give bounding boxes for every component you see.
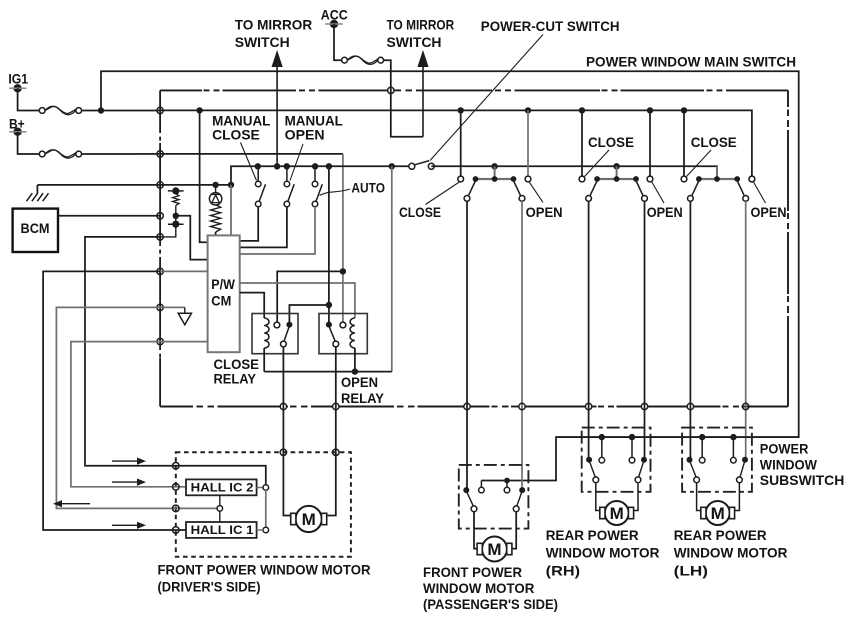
- LED (illumination): [209, 185, 221, 205]
- junction P/W CM feed tap: [196, 107, 202, 113]
- svg-text:POWER-CUT SWITCH: POWER-CUT SWITCH: [481, 18, 620, 34]
- wire rear LH motor open line: [745, 201, 747, 460]
- svg-text:M: M: [711, 504, 725, 523]
- wire passenger motor close line: [466, 201, 468, 490]
- svg-text:AUTO: AUTO: [351, 180, 385, 196]
- wire BCM path to P/W CM: [176, 216, 208, 260]
- terminal B+: [9, 116, 26, 136]
- wire IG1 to fuse: [18, 88, 40, 110]
- svg-text:OPEN: OPEN: [751, 204, 787, 220]
- junction ground bus corner to P/W CM: [228, 182, 234, 188]
- fuse B+: [39, 150, 81, 158]
- pin row2 on dashed box: [173, 484, 180, 491]
- pin rear RH open on bottom border: [641, 403, 647, 409]
- junction manual open contact: [284, 163, 290, 169]
- junction mirror feed: [274, 163, 280, 169]
- junction passenger switch common: [491, 163, 497, 169]
- junction passenger close feed: [458, 107, 464, 113]
- close relay box: [252, 314, 298, 354]
- pointer manual close: [241, 143, 257, 181]
- wire rear LH close contact: [683, 110, 685, 176]
- label POWER WINDOW MAIN SWITCH: [586, 53, 796, 69]
- svg-text:BCM: BCM: [21, 221, 50, 236]
- illumination terminal lower: [168, 216, 184, 228]
- svg-text:SUBSWITCH: SUBSWITCH: [760, 472, 845, 488]
- pointer open passenger: [529, 182, 543, 202]
- junction BCM wire / illumination: [173, 213, 179, 219]
- front power window motor (driver side) dashed box: [176, 452, 351, 556]
- pin hall ic1 on left border: [157, 268, 163, 274]
- pointer open rear RH: [652, 182, 664, 203]
- wire rear RH motor open line: [644, 201, 646, 460]
- junction B+ rail to close relay contact: [340, 268, 346, 274]
- pointer close passenger: [426, 182, 460, 205]
- wire hall ic1 line (row4): [43, 271, 186, 530]
- pointer manual open: [290, 144, 303, 181]
- wire BCM to main switch pin: [58, 215, 160, 217]
- wire top feed rail to subswitches (IG1 around right side): [101, 71, 799, 480]
- switch MANUAL CLOSE: [255, 166, 265, 207]
- label CLOSE (rear RH): [588, 134, 634, 150]
- label POWER-CUT SWITCH: [481, 18, 620, 34]
- ground symbol (battery ground): [27, 185, 49, 201]
- pin B+ on left border: [157, 151, 163, 157]
- rear RH subswitch contacts: [586, 434, 647, 483]
- motor M rear LH: [701, 501, 735, 525]
- fuse ACC: [342, 56, 384, 64]
- junction relay commons: [326, 302, 332, 308]
- label AUTO: [351, 180, 385, 196]
- wire hall right pins: [257, 485, 269, 533]
- junction rear RH switch common: [613, 163, 619, 169]
- svg-text:CLOSE: CLOSE: [212, 126, 260, 142]
- relay coil return rail: [264, 166, 392, 371]
- label OPEN RELAY: [341, 375, 384, 406]
- node hall mid pin: [217, 495, 223, 522]
- wire passenger motor left: [474, 511, 477, 548]
- wire sensor ground pin with chassis triangle: [160, 307, 191, 324]
- wire open relay output to driver motor: [328, 347, 336, 516]
- svg-text:HALL IC 1: HALL IC 1: [191, 523, 254, 537]
- svg-text:OPEN: OPEN: [285, 126, 325, 142]
- svg-text:(PASSENGER'S SIDE): (PASSENGER'S SIDE): [423, 596, 558, 612]
- label OPEN (rear LH): [751, 204, 787, 220]
- pin rear RH close on bottom border: [585, 403, 591, 409]
- svg-text:RELAY: RELAY: [214, 371, 257, 386]
- switch MANUAL OPEN: [284, 166, 294, 207]
- main switch box top border (dash-dot): [160, 89, 788, 91]
- wire rear LH motor left: [697, 482, 701, 510]
- pin rear LH close on bottom border: [687, 403, 693, 409]
- svg-text:WINDOW MOTOR: WINDOW MOTOR: [423, 580, 534, 596]
- wire rear LH open contact (rail end corner): [749, 176, 755, 182]
- label REAR POWER WINDOW MOTOR (LH): [674, 527, 788, 578]
- power-cut switch: [409, 161, 435, 170]
- BCM box: [13, 209, 58, 252]
- wire rear RH motor close line: [588, 201, 590, 460]
- wire close relay common branch: [289, 305, 329, 322]
- rear LH subswitch box (dash-dot): [682, 428, 752, 492]
- front passenger subswitch box (dash-dot): [459, 465, 529, 529]
- junction passenger open feed: [525, 107, 531, 113]
- label MANUAL CLOSE: [212, 113, 271, 143]
- junction IG1 top rail tap: [98, 107, 104, 113]
- pin IG1 on left border: [157, 107, 163, 113]
- close relay coil: [264, 318, 269, 372]
- fuse IG1: [39, 106, 81, 114]
- close relay contact: [274, 322, 292, 347]
- pin driver motor close crossing: [280, 449, 286, 455]
- wire rear LH motor right: [735, 482, 739, 510]
- svg-text:(DRIVER'S SIDE): (DRIVER'S SIDE): [158, 579, 261, 595]
- label POWER WINDOW SUBSWITCH: [760, 441, 845, 488]
- svg-text:(LH): (LH): [674, 562, 708, 578]
- wire rear LH motor close line: [689, 201, 691, 460]
- svg-text:TO MIRROR: TO MIRROR: [387, 17, 455, 33]
- motor M rear RH: [600, 501, 634, 525]
- wire close relay output to driver motor: [283, 347, 293, 516]
- pin open output on bottom border: [333, 403, 339, 409]
- junction rear LH close feed: [681, 107, 687, 113]
- label TO MIRROR SWITCH (left): [235, 17, 313, 51]
- pin row3 on dashed box: [173, 505, 180, 512]
- svg-text:SWITCH: SWITCH: [387, 34, 442, 50]
- label TO MIRROR SWITCH (right): [387, 17, 455, 51]
- svg-text:WINDOW: WINDOW: [760, 456, 818, 472]
- wire B+ branch to close relay contact: [277, 271, 343, 322]
- svg-text:M: M: [487, 540, 501, 559]
- wire main switch pin to P/W CM (hall ic1 line): [160, 270, 208, 272]
- switch rear RH window (in main switch): [579, 166, 653, 201]
- label CLOSE (rear LH): [691, 134, 737, 150]
- rear RH subswitch box (dash-dot): [582, 428, 651, 492]
- arrow to mirror switch (right): [417, 50, 428, 137]
- pin ACC on top border: [388, 87, 394, 93]
- B+ rail to relay contacts: [160, 154, 343, 323]
- svg-text:TO MIRROR: TO MIRROR: [235, 17, 313, 33]
- relay common rail from ground bus: [328, 166, 330, 322]
- svg-text:M: M: [302, 510, 316, 529]
- terminal IG1: [8, 72, 28, 93]
- pin passenger close on bottom border: [464, 403, 470, 409]
- motor M front passenger: [477, 537, 512, 562]
- wire hall feed from pin to motor box (row1): [85, 237, 266, 485]
- svg-text:REAR POWER: REAR POWER: [546, 527, 639, 543]
- arrow row3 (output): [53, 500, 90, 507]
- wire ground to main switch pin: [37, 184, 160, 186]
- resistor illumination: [173, 191, 179, 216]
- svg-text:SWITCH: SWITCH: [235, 34, 290, 50]
- wire rear RH close contact: [581, 110, 583, 176]
- pointer auto: [320, 189, 351, 196]
- open relay coil: [350, 318, 355, 372]
- wire IG1 tap to P/W CM: [200, 110, 208, 242]
- svg-text:HALL IC 2: HALL IC 2: [191, 481, 254, 495]
- pin ground on left border: [157, 182, 163, 188]
- pin BCM signal on left border: [157, 213, 163, 219]
- label REAR POWER WINDOW MOTOR (RH): [546, 527, 660, 578]
- svg-text:CM: CM: [211, 294, 231, 309]
- subswitch feed bus: [556, 436, 799, 438]
- wire lower terminal to hall-feed pin: [160, 224, 176, 237]
- junction relay coil return rail: [389, 163, 395, 169]
- switch front passenger window (in main switch): [458, 166, 531, 201]
- switch AUTO: [312, 166, 322, 207]
- pin rear LH open on bottom border: [743, 403, 749, 409]
- wire auto contact to P/W CM: [240, 207, 315, 254]
- HALL IC 2 box: [186, 479, 257, 495]
- wire rear RH motor left: [596, 482, 600, 510]
- svg-text:FRONT POWER WINDOW MOTOR: FRONT POWER WINDOW MOTOR: [158, 562, 371, 578]
- pin passenger open on bottom border: [519, 403, 525, 409]
- svg-text:REAR POWER: REAR POWER: [674, 527, 767, 543]
- pin hall feed on left border: [157, 234, 163, 240]
- label MANUAL OPEN: [285, 113, 344, 143]
- svg-text:WINDOW MOTOR: WINDOW MOTOR: [674, 545, 788, 561]
- wire manual open contact to P/W CM: [240, 207, 287, 248]
- pin sensor ground on left border: [157, 304, 163, 310]
- motor M driver side: [291, 506, 327, 532]
- junction rear RH close feed: [579, 107, 585, 113]
- wire fuse to main switch pin (IG1 rail): [82, 110, 161, 112]
- svg-text:OPEN: OPEN: [341, 375, 378, 390]
- svg-text:RELAY: RELAY: [341, 391, 384, 406]
- wire P/W CM to close relay coil: [240, 293, 265, 318]
- pointer line POWER-CUT SWITCH: [430, 35, 543, 161]
- wire passenger motor open line: [521, 201, 523, 490]
- pointer close rear RH: [585, 150, 610, 177]
- svg-text:M: M: [610, 504, 624, 523]
- resistor below LED: [211, 205, 221, 236]
- arrow row4: [112, 522, 146, 529]
- main switch box right border (dash-dot): [787, 90, 789, 406]
- pin driver motor open crossing: [333, 449, 339, 455]
- rear LH subswitch contacts: [687, 434, 749, 483]
- wire passenger close contact: [460, 110, 462, 176]
- junction ground bus / LED tap: [212, 182, 218, 188]
- main switch box bottom border (dash-dot): [160, 406, 788, 408]
- wire B+ to fuse: [18, 132, 40, 154]
- pin close output on bottom border: [280, 403, 286, 409]
- wire ACC to fuse: [334, 24, 342, 60]
- svg-text:CLOSE: CLOSE: [214, 357, 260, 372]
- arrow feed row1: [112, 458, 146, 465]
- P/W CM module box: [208, 235, 240, 352]
- junction auto contact: [312, 163, 318, 169]
- wire passenger motor right: [512, 511, 516, 548]
- pin hall ic2 on left border: [157, 338, 163, 344]
- wire fuse to main switch pin (B+ rail): [82, 153, 161, 155]
- svg-text:POWER: POWER: [760, 441, 809, 457]
- junction relay common rail: [326, 163, 332, 169]
- ground bus right of power-cut switch: [431, 166, 717, 179]
- wire main switch pin to P/W CM (hall ic2 line): [160, 341, 208, 343]
- label CLOSE RELAY: [214, 357, 260, 387]
- label OPEN (passenger): [526, 204, 563, 220]
- label OPEN (rear RH): [647, 204, 683, 220]
- label CLOSE (passenger): [399, 204, 441, 220]
- svg-text:OPEN: OPEN: [647, 204, 683, 220]
- wire ACC fuse down through connector: [383, 60, 423, 137]
- junction manual close contact: [255, 163, 261, 169]
- svg-text:OPEN: OPEN: [526, 204, 563, 220]
- svg-text:CLOSE: CLOSE: [588, 134, 634, 150]
- switch rear LH window (in main switch): [681, 166, 755, 201]
- ground bus of main switch: [160, 166, 409, 185]
- svg-text:(RH): (RH): [546, 562, 580, 578]
- pin row1 on dashed box: [173, 463, 180, 470]
- svg-text:WINDOW MOTOR: WINDOW MOTOR: [546, 545, 660, 561]
- svg-text:P/W: P/W: [211, 277, 235, 292]
- svg-text:CLOSE: CLOSE: [691, 134, 737, 150]
- svg-text:POWER WINDOW MAIN SWITCH: POWER WINDOW MAIN SWITCH: [586, 53, 796, 69]
- terminal ACC: [321, 7, 348, 28]
- main switch connector left border: [159, 90, 161, 406]
- svg-text:CLOSE: CLOSE: [399, 204, 441, 220]
- open relay box: [319, 314, 367, 354]
- pin row4 on dashed box: [173, 527, 180, 534]
- HALL IC 1 box: [186, 522, 257, 538]
- svg-text:FRONT POWER: FRONT POWER: [423, 564, 522, 580]
- junction open relay coil return: [352, 368, 358, 374]
- label FRONT POWER WINDOW MOTOR (PASSENGER S SIDE): [423, 564, 558, 612]
- wire hall ic2 line (row2): [71, 342, 186, 487]
- label FRONT POWER WINDOW MOTOR (DRIVER S SIDE): [158, 562, 371, 595]
- arrow to mirror switch (left) / wire to ground bus: [272, 50, 283, 166]
- wire ground to P/W CM top: [230, 185, 232, 236]
- pointer open rear LH: [754, 182, 766, 203]
- illumination terminal upper: [168, 187, 184, 194]
- pointer close rear LH: [687, 150, 712, 177]
- wire P/W CM to open relay coil: [240, 283, 355, 318]
- IG1 rail inside main switch: [160, 110, 752, 176]
- arrow row2: [112, 479, 146, 486]
- wire rear RH motor right: [634, 482, 638, 510]
- passenger subswitch contacts: [463, 478, 525, 512]
- wire sensor output line (row3): [56, 307, 217, 508]
- open relay contact: [326, 322, 346, 347]
- wire rear RH open contact: [649, 110, 651, 176]
- wire passenger open contact: [527, 110, 529, 176]
- wire manual close contact to P/W CM: [240, 207, 259, 241]
- junction rear RH open feed: [647, 107, 653, 113]
